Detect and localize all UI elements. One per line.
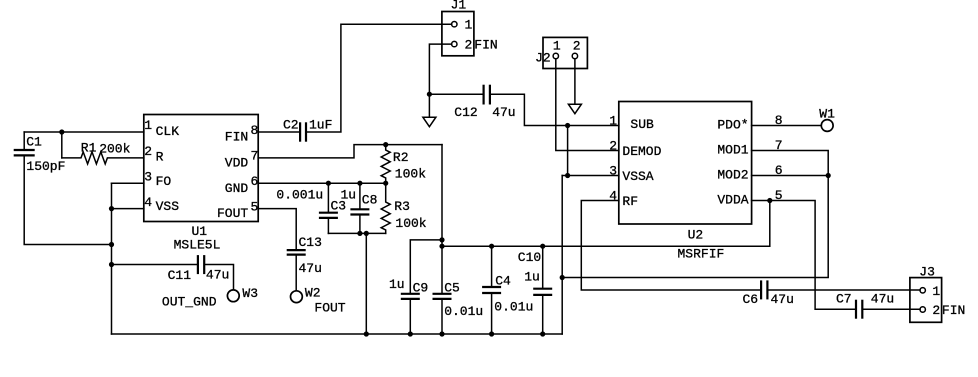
junction C12 / ground / J1 pin 2 — [427, 92, 432, 97]
svg-text:R: R — [156, 150, 164, 165]
svg-text:FIN: FIN — [942, 303, 965, 318]
wire U2 pin 8 PDO* to W1 — [752, 125, 822, 127]
svg-text:VSS: VSS — [156, 199, 180, 214]
svg-text:47u: 47u — [299, 261, 322, 276]
junction VDD at VDDA pin wire — [767, 198, 772, 203]
svg-text:MOD2: MOD2 — [717, 168, 748, 183]
svg-text:47u: 47u — [206, 268, 229, 283]
wire C1 top lead — [23, 132, 25, 149]
svg-text:J1: J1 — [451, 0, 467, 13]
junction MOD2 on MOD1 vertical — [826, 173, 831, 178]
wire U1 pin 4 VSS stub — [112, 208, 144, 210]
wire C9 branch — [410, 240, 442, 293]
junction C10 top — [540, 244, 545, 249]
junction VDD lower rail branch — [439, 244, 444, 249]
test point W2 — [291, 291, 303, 303]
svg-text:C4: C4 — [495, 273, 511, 288]
svg-text:47u: 47u — [871, 292, 894, 307]
svg-text:2: 2 — [932, 303, 940, 318]
junction CLK/R1 — [59, 129, 64, 134]
wire U1 pin 3 FO to left vertical — [112, 182, 144, 184]
svg-text:200k: 200k — [99, 142, 130, 157]
wire C6 right lead to J3 pin 1 — [768, 289, 920, 291]
svg-text:C8: C8 — [362, 192, 378, 207]
test point W1 — [821, 120, 833, 132]
svg-text:FIN: FIN — [474, 38, 497, 53]
capacitor C7 47u — [856, 300, 862, 319]
junction VSSA wire — [565, 173, 570, 178]
capacitor C13 47u — [287, 250, 306, 255]
junction C8 bottom — [357, 231, 362, 236]
IC U2 MSRFIF — [619, 102, 752, 225]
svg-text:C5: C5 — [444, 281, 460, 296]
svg-text:U2: U2 — [688, 228, 704, 243]
wire C8 top lead — [359, 183, 361, 208]
svg-text:0.001u: 0.001u — [276, 188, 323, 203]
svg-text:C7: C7 — [836, 292, 852, 307]
wire U2 pin 3 VSSA to left vertical — [562, 175, 619, 177]
svg-text:1u: 1u — [341, 188, 357, 203]
junction C1 on left vertical — [109, 242, 114, 247]
wire VDD vertical down to C5 — [441, 145, 443, 293]
svg-text:VSSA: VSSA — [622, 169, 653, 184]
svg-text:MSLE5L: MSLE5L — [174, 238, 221, 253]
wire C3/C8/R3 bottom tie — [328, 232, 385, 234]
capacitor C3 0.001u — [319, 213, 338, 218]
svg-text:R3: R3 — [394, 199, 410, 214]
svg-text:RF: RF — [622, 194, 638, 209]
ground symbol below J1 pin 2 node — [423, 117, 436, 127]
capacitor C10 1u — [533, 289, 552, 295]
wire C8 bottom lead — [359, 216, 361, 234]
svg-text:1: 1 — [932, 284, 940, 299]
wire U1 pin 5 FOUT to C13 — [258, 209, 296, 249]
svg-text:1u: 1u — [389, 277, 405, 292]
svg-text:C9: C9 — [413, 281, 429, 296]
svg-text:C1: C1 — [26, 135, 42, 150]
svg-text:PDO*: PDO* — [717, 118, 748, 133]
wire C4 bottom lead — [491, 294, 493, 334]
capacitor C12 47u — [484, 85, 490, 105]
wire left vertical FO/VSS down to bottom rail — [111, 183, 113, 334]
svg-text:150pF: 150pF — [26, 159, 65, 174]
svg-text:1: 1 — [465, 18, 473, 33]
wire C2 to J1 pin 1 riser — [307, 24, 452, 132]
svg-text:DEMOD: DEMOD — [622, 144, 661, 159]
connector J2 — [543, 37, 587, 68]
svg-text:0.01u: 0.01u — [494, 299, 533, 314]
wire VSSA vertical down to ground rail — [561, 176, 563, 335]
wire C9 bottom lead — [409, 300, 411, 334]
junction C5 bottom on rail — [439, 331, 444, 336]
capacitor C5 0.01u — [433, 294, 452, 299]
junction VSSA / MOD return wire — [560, 275, 565, 280]
wire R1 branch from CLK node — [61, 132, 63, 158]
wire CLK net C1 top to U1 pin 1 — [24, 131, 144, 133]
svg-text:1: 1 — [144, 118, 152, 133]
svg-text:FO: FO — [156, 174, 172, 189]
wire C5 bottom lead — [441, 300, 443, 334]
connector J3 — [910, 278, 942, 323]
wire drop from bottom tie to ground rail — [365, 233, 367, 334]
svg-text:1u: 1u — [524, 270, 540, 285]
svg-text:OUT_GND: OUT_GND — [162, 295, 217, 310]
IC U1 MSLE5L — [144, 115, 258, 222]
wire C7 right lead to J3 pin 2 — [863, 308, 920, 310]
wire U2 pin 5 VDDA right and down to C7 — [752, 201, 855, 310]
junction C8 top on GND wire — [357, 181, 362, 186]
svg-text:5: 5 — [250, 199, 258, 214]
svg-text:C11: C11 — [168, 268, 192, 283]
svg-text:MSRFIF: MSRFIF — [678, 246, 725, 261]
wire bottom ground rail — [112, 333, 563, 335]
svg-text:FOUT: FOUT — [314, 301, 345, 316]
capacitor C4 0.01u — [482, 287, 501, 293]
junction C9 bottom on rail — [408, 331, 413, 336]
junction VSS on left vertical — [109, 206, 114, 211]
capacitor C11 47u — [198, 255, 204, 274]
svg-text:C6: C6 — [743, 292, 759, 307]
junction drop to rail — [364, 231, 369, 236]
svg-text:C12: C12 — [454, 105, 477, 120]
svg-text:SUB: SUB — [630, 117, 654, 132]
svg-text:FOUT: FOUT — [217, 206, 248, 221]
capacitor C2 1uF — [300, 122, 306, 141]
svg-text:100k: 100k — [395, 167, 426, 182]
ground symbol below J2 pin 2 — [568, 104, 581, 114]
junction R2 top — [383, 142, 388, 147]
junction R2 bottom / R3 top — [383, 181, 388, 186]
wire C4 top lead — [491, 246, 493, 286]
wire C12 right lead down to SUB — [491, 94, 619, 125]
wire C13 bottom lead to W2 — [295, 256, 297, 291]
svg-text:3: 3 — [144, 170, 152, 185]
svg-text:VDDA: VDDA — [717, 193, 748, 208]
wire J1 pin 2 down to C12 node — [429, 44, 451, 117]
wire C3 top lead — [327, 183, 329, 211]
wire C1 bottom lead down and right — [24, 156, 111, 244]
junction drop on rail — [364, 331, 369, 336]
resistor R3 100k — [381, 183, 390, 233]
wire J2 pin 2 to ground — [574, 59, 576, 104]
svg-text:0.01u: 0.01u — [444, 304, 483, 319]
svg-text:J2: J2 — [535, 51, 551, 66]
svg-text:C10: C10 — [518, 250, 541, 265]
wire VSSA branch vertical — [567, 126, 569, 176]
svg-text:FIN: FIN — [225, 130, 248, 145]
connector J1 — [442, 12, 474, 56]
wire U2 pin 7 MOD1 down and left to VSSA vertical — [562, 151, 828, 278]
svg-text:MOD1: MOD1 — [717, 143, 748, 158]
wire U2 pin 2 DEMOD to J2 pin 1 — [556, 59, 619, 151]
wire U2 pin 4 RF down and right through C6 path — [581, 201, 760, 291]
svg-text:W1: W1 — [819, 106, 835, 121]
capacitor C8 1u — [350, 209, 369, 214]
resistor R2 100k — [381, 145, 390, 184]
wire U2 pin 6 MOD2 — [752, 175, 829, 177]
test point W3 — [227, 290, 239, 302]
svg-text:47u: 47u — [492, 105, 515, 120]
svg-text:C13: C13 — [299, 235, 322, 250]
svg-text:1: 1 — [553, 39, 561, 54]
wire C3 bottom lead — [327, 219, 329, 233]
svg-text:R2: R2 — [393, 150, 409, 165]
wire U1 pin 8 FIN to C2 — [258, 131, 299, 133]
wire VDD lower rail to VDDA — [442, 201, 770, 247]
svg-text:VDD: VDD — [225, 156, 249, 171]
svg-text:GND: GND — [225, 181, 249, 196]
svg-text:47u: 47u — [771, 292, 794, 307]
svg-text:1uF: 1uF — [309, 117, 332, 132]
svg-text:J3: J3 — [919, 265, 935, 280]
capacitor C1 150pF — [14, 150, 35, 155]
svg-text:2: 2 — [144, 144, 152, 159]
resistor R1 200k — [62, 152, 144, 164]
svg-text:2: 2 — [573, 39, 581, 54]
junction SUB / VSSA branch — [565, 123, 570, 128]
wire C10 bottom lead — [542, 296, 544, 334]
wire C10 top lead — [542, 246, 544, 287]
svg-text:W3: W3 — [242, 286, 258, 301]
svg-text:7: 7 — [250, 149, 258, 164]
wire C11 left lead — [112, 264, 197, 266]
junction C4 bottom on rail — [489, 331, 494, 336]
svg-text:R1: R1 — [81, 141, 97, 156]
junction C4 top — [489, 244, 494, 249]
svg-text:6: 6 — [250, 174, 258, 189]
junction C11 on left vertical — [109, 262, 114, 267]
wire U1 pin 6 GND to R2/R3 — [258, 182, 386, 184]
junction C9 branch — [439, 237, 444, 242]
svg-text:100k: 100k — [395, 216, 426, 231]
svg-text:4: 4 — [144, 195, 152, 210]
svg-text:2: 2 — [465, 38, 473, 53]
wire C12 left lead — [429, 93, 482, 95]
svg-text:C2: C2 — [283, 117, 299, 132]
svg-text:W2: W2 — [305, 286, 321, 301]
wire C11 right lead to W3 — [205, 265, 233, 290]
capacitor C9 1u — [401, 294, 420, 299]
wire U1 pin 7 VDD up and right to R2 top rail — [258, 145, 442, 158]
svg-text:8: 8 — [250, 123, 258, 138]
junction C10 bottom on rail — [540, 331, 545, 336]
capacitor C6 47u — [761, 280, 767, 299]
junction C3 top on GND wire — [326, 181, 331, 186]
svg-text:CLK: CLK — [156, 124, 180, 139]
